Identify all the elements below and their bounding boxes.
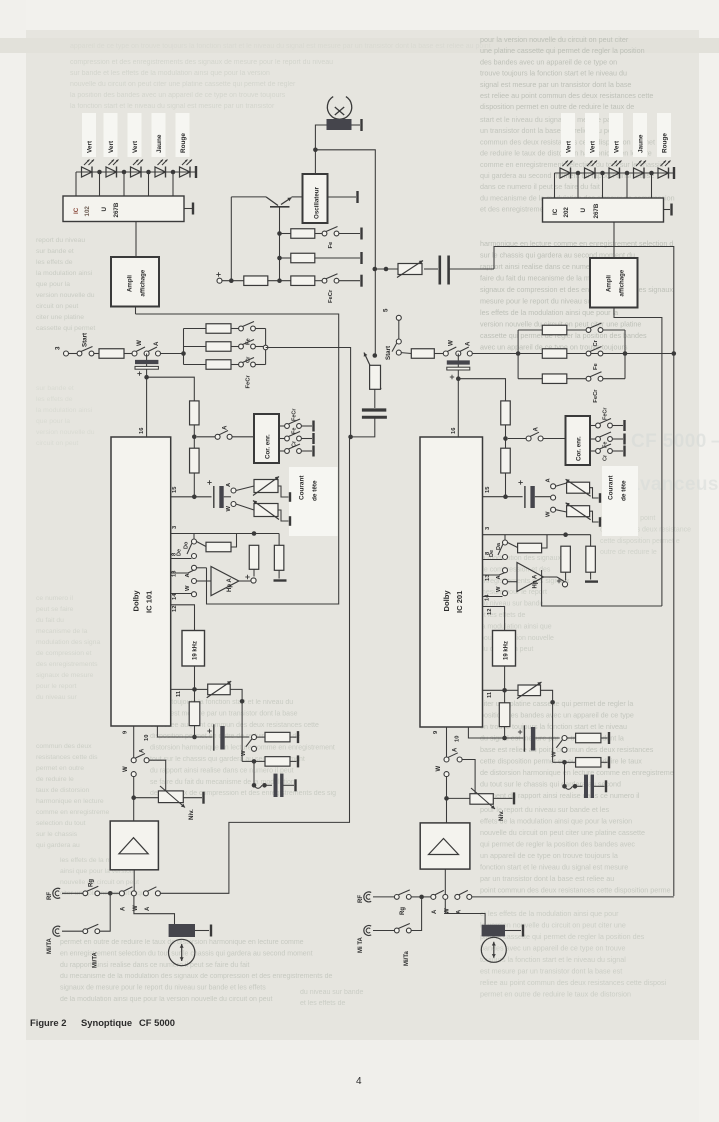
svg-text:15: 15 [172, 486, 178, 493]
svg-text:10: 10 [144, 735, 150, 741]
svg-text:resistances cette dis: resistances cette dis [36, 754, 98, 761]
svg-text:affichage: affichage [140, 269, 147, 296]
svg-text:de reduire le: de reduire le [36, 776, 74, 783]
svg-text:19 kHz: 19 kHz [193, 641, 199, 660]
pin9 pin10 labels (right) [433, 730, 461, 742]
svg-text:de distorsion harmonique en le: de distorsion harmonique en lecture comm… [480, 768, 674, 777]
svg-text:Start: Start [385, 346, 392, 360]
wire [603, 329, 625, 331]
+ supply terminal left [216, 272, 244, 283]
wire [256, 346, 266, 348]
terminal bar right of left LED row [195, 166, 197, 178]
rheostat Niv. (right) [447, 788, 515, 821]
switch Start (left) [77, 333, 94, 356]
svg-text:trouve toujours la fonction st: trouve toujours la fonction start et le … [480, 69, 627, 78]
svg-text:11: 11 [487, 691, 493, 698]
right EQ resistor rows connector [517, 330, 519, 379]
svg-text:du tout sur le chassis qui gar: du tout sur le chassis qui gardera au se… [480, 780, 621, 789]
svg-text:sur bande et: sur bande et [36, 248, 74, 255]
label Rouge (left LED 5) [180, 133, 187, 153]
svg-text:14: 14 [485, 594, 491, 601]
svg-text:RF: RF [47, 892, 53, 900]
svg-text:16: 16 [139, 427, 145, 434]
photo-resistor black box [327, 119, 352, 130]
svg-text:Dolby: Dolby [442, 590, 451, 612]
contacts W/A (right start) [443, 340, 472, 356]
svg-text:la position des bandes avec un: la position des bandes avec un appareil … [70, 92, 286, 99]
RF input jack (left) [47, 888, 83, 900]
resistor De/Da (right) [508, 535, 548, 553]
svg-text:est reliee au point commun des: est reliee au point commun des deux resi… [480, 91, 653, 100]
pin11 wire (left) [171, 689, 195, 697]
svg-text:cette disposition permet en ou: cette disposition permet en outre de red… [480, 757, 642, 766]
svg-text:version nouvelle du: version nouvelle du [36, 292, 95, 299]
resistor row middle (bias) [280, 252, 362, 264]
switch Fe (bias) [322, 227, 339, 249]
svg-text:du rapport ainsi realise dans: du rapport ainsi realise dans ce numero … [150, 767, 294, 774]
svg-text:pour la version nouvelle du ci: pour la version nouvelle du circuit on p… [480, 35, 629, 44]
VU meter black box (right) [482, 925, 523, 937]
svg-text:Courant: Courant [608, 475, 615, 500]
svg-text:sur bande et: sur bande et [36, 385, 74, 392]
svg-text:A: A [432, 909, 438, 914]
svg-text:Rouge: Rouge [662, 133, 669, 153]
pin11 wire (right) [483, 690, 505, 698]
svg-text:CF 5000: CF 5000 [139, 1017, 175, 1028]
wire 19kHz to pin11 node [192, 666, 197, 692]
label Jaune (left LED 4) [156, 134, 163, 153]
playback EQ cap (left) [195, 724, 250, 750]
svg-text:Mi/TA: Mi/TA [93, 951, 99, 968]
svg-text:cassette qui permet: cassette qui permet [36, 325, 95, 332]
switch EQ Fe (right) [586, 347, 603, 371]
svg-text:taux de distorsion: taux de distorsion [36, 787, 89, 794]
svg-text:Do: Do [184, 541, 190, 549]
wire input row to frame (right) [472, 896, 674, 898]
svg-text:Cr: Cr [292, 440, 298, 447]
label Vert (right LED 2) [590, 140, 597, 153]
pin10 wire to bus (right) [468, 727, 504, 738]
svg-text:circuit on peut: circuit on peut [36, 303, 78, 310]
resistor playback EQ 1 (right) [567, 732, 609, 744]
svg-text:W: W [226, 506, 232, 512]
svg-text:signal est mesure par un trans: signal est mesure par un transistor dont… [150, 710, 298, 717]
wire start bus (left) [161, 351, 186, 356]
svg-text:ce numero il: ce numero il [36, 595, 74, 602]
svg-text:du mecanisme de la modulation: du mecanisme de la modulation des signau… [60, 973, 332, 980]
svg-text:Rg: Rg [89, 879, 95, 887]
junction dots transistor chain [229, 231, 282, 283]
label Vert (left LED 2) [108, 140, 115, 153]
LED D204 (right) [634, 161, 647, 179]
pin9 pin10 labels (left) [123, 730, 151, 741]
enclosure record EQ (left) [136, 314, 339, 604]
lamp symbol [327, 97, 351, 120]
label Vert (right LED 3) [614, 140, 621, 153]
svg-text:la fonction start et le niveau: la fonction start et le niveau du signal… [70, 103, 275, 110]
record EQ trimmer capacitor (left) [135, 354, 158, 380]
svg-text:Ampli: Ampli [606, 275, 613, 292]
svg-text:qui permet de regler la positi: qui permet de regler la position des ban… [480, 840, 635, 849]
switch FeCr (bias) [322, 274, 339, 303]
pin9 switch (right) [436, 727, 462, 823]
svg-text:IC: IC [552, 208, 559, 215]
trimmer cap playback (right) [562, 762, 606, 798]
svg-text:12: 12 [487, 609, 493, 615]
svg-text:cette disposition permet e: cette disposition permet e [600, 538, 680, 545]
svg-text:outre de reduire le: outre de reduire le [600, 549, 657, 556]
label Vert (left LED 3) [132, 140, 139, 153]
svg-text:bandes avec un appareil de ce: bandes avec un appareil de ce type on tr… [480, 944, 625, 953]
wire [256, 328, 266, 330]
svg-text:dans ce numero il peut se fair: dans ce numero il peut se faire du fait [480, 182, 600, 191]
switch Mi/TA (left) [83, 924, 100, 968]
svg-text:de tête: de tête [621, 480, 628, 501]
trimmer cap playback (left) [252, 761, 296, 797]
head current capacitor (left) [194, 480, 231, 508]
svg-text:A: A [153, 341, 160, 346]
resistor pin11 lower (right) [499, 690, 510, 740]
svg-text:A: A [140, 748, 146, 753]
svg-text:signaux de compression et des: signaux de compression et des enregistre… [480, 285, 673, 294]
switch Cor enr Cr (right) [590, 444, 625, 461]
wire [603, 353, 625, 355]
svg-text:Mi/Ta: Mi/Ta [404, 950, 410, 966]
left EQ switch common [263, 329, 268, 365]
svg-text:A: A [453, 747, 459, 752]
svg-text:4: 4 [356, 1076, 362, 1087]
resistor playback EQ 1 (left) [257, 731, 299, 743]
switch Start (right) [385, 339, 401, 360]
svg-text:les effets de: les effets de [36, 259, 73, 266]
switch Cor enr Fe (right) [590, 432, 625, 448]
input node dot (right) [419, 895, 430, 900]
Dolby IC 201 box [420, 437, 483, 727]
svg-text:15: 15 [485, 486, 491, 493]
rheostat middle (left record level) [364, 353, 381, 390]
svg-text:Mi TA: Mi TA [358, 936, 364, 953]
svg-text:trouve toujours la fonction st: trouve toujours la fonction start et le … [150, 699, 293, 706]
svg-text:12: 12 [172, 606, 178, 612]
switch Cor enr FeCr (right) [590, 407, 625, 431]
pin3 wire (right) [483, 526, 591, 537]
svg-text:Vert: Vert [566, 140, 573, 153]
wire trimmer to pin15 chain [147, 377, 195, 401]
svg-text:19 kHz: 19 kHz [504, 641, 510, 660]
svg-text:U: U [101, 207, 108, 212]
wire pin16 (left) [139, 377, 147, 437]
left EQ resistor rows connector [183, 329, 185, 365]
wire monitor return (left) [160, 437, 349, 893]
contacts A/W head current (left) [226, 482, 254, 512]
svg-text:reliee au point commun des deu: reliee au point commun des deux resistan… [480, 978, 667, 987]
svg-text:Dolby: Dolby [132, 590, 141, 612]
svg-text:qui gardera au: qui gardera au [36, 842, 80, 849]
svg-text:est reliee au point commun des: est reliee au point commun des deux resi… [150, 722, 319, 729]
svg-text:A: A [465, 341, 472, 346]
svg-text:circuit on peut: circuit on peut [36, 440, 78, 447]
LED D201 (right) [560, 161, 573, 179]
terminal right of black box [352, 119, 362, 131]
svg-text:que pour la: que pour la [36, 281, 70, 288]
svg-text:16: 16 [451, 427, 457, 434]
svg-text:de tête: de tête [312, 480, 319, 501]
svg-text:mecanisme de la: mecanisme de la [36, 628, 88, 635]
LED D101 (left) [82, 160, 95, 178]
wire HpA output (right) [544, 577, 566, 582]
svg-text:CF 5000 – une platine c: CF 5000 – une platine c [631, 431, 719, 452]
svg-text:de la modulation ainsi que pou: de la modulation ainsi que pour la versi… [60, 996, 273, 1003]
svg-text:enregistrements des signaux: enregistrements des signaux [480, 578, 570, 585]
label Vert (right LED 1) [566, 140, 573, 153]
terminal FeCr row [339, 275, 362, 287]
resistor EQ FeCr (left) [184, 360, 239, 370]
svg-text:des bandes avec un appareil de: des bandes avec un appareil de ce type o… [480, 57, 617, 66]
IC U102 driver box [63, 196, 184, 222]
IC U202 driver box [543, 198, 664, 222]
svg-text:version nouvelle du: version nouvelle du [36, 429, 95, 436]
wire Ampli affichage down to bus [135, 307, 137, 315]
svg-text:Cor. enr.: Cor. enr. [265, 434, 272, 459]
wire transistor emitter chain [279, 207, 281, 281]
wire pin9 A to Niv [149, 760, 166, 791]
19 kHz filter box (left) [182, 631, 205, 667]
pin8 wire (right) [483, 551, 503, 560]
svg-text:Fe: Fe [328, 241, 334, 249]
svg-text:fonction start et le niveau du: fonction start et le niveau du signal es… [480, 863, 628, 872]
resistor EQ Cr (right) [518, 325, 586, 335]
svg-text:appareil de ce type on trouve: appareil de ce type on trouve toujours l… [70, 43, 491, 50]
terminal Fe row [339, 228, 362, 240]
resistor pin11 lower (left) [189, 689, 200, 739]
svg-text:A: A [121, 906, 127, 911]
switch playback EQ (left) [241, 735, 257, 756]
svg-text:W: W [136, 340, 143, 346]
wire [256, 364, 266, 366]
capacitor between channels [348, 389, 387, 439]
head current capacitor (right) [506, 480, 551, 508]
svg-text:Figure 2: Figure 2 [30, 1017, 66, 1028]
enclosure record EQ (right, lower left edge) [542, 570, 662, 606]
LED D102 (left) [106, 160, 119, 178]
VU meter black box (left) [169, 924, 211, 937]
resistor EQ Fe (left) [184, 324, 239, 334]
svg-text:Vert: Vert [590, 140, 597, 153]
wire LED row right [555, 172, 675, 174]
Dolby switch De/Do (left) [177, 534, 197, 559]
ground terminal right of IC 202 [664, 204, 672, 216]
label Vert (left LED 1) [87, 140, 94, 153]
junction dots record bus [373, 267, 389, 272]
pin10 wire to bus (left) [157, 726, 194, 737]
svg-text:Courant: Courant [299, 475, 306, 500]
svg-text:Rg: Rg [400, 907, 406, 915]
ground terminal right of IC 102 [184, 203, 193, 215]
svg-text:modulation des signa: modulation des signa [36, 639, 100, 646]
contacts A/W input (left) [119, 887, 139, 911]
svg-text:sur le chassis: sur le chassis [36, 831, 78, 838]
svg-text:A: A [533, 427, 540, 432]
svg-text:Cor. enr.: Cor. enr. [576, 436, 583, 461]
svg-text:du niveau sur: du niveau sur [36, 694, 78, 701]
svg-text:sur bande et les effets de la: sur bande et les effets de la modulation… [70, 70, 270, 77]
svg-text:commun des deux: commun des deux [36, 743, 92, 750]
wires LEDs to IC 102 [76, 172, 173, 196]
svg-text:W: W [496, 586, 502, 592]
switch A to Cor enr (left) [197, 425, 254, 439]
svg-text:pour le report: pour le report [36, 683, 77, 690]
svg-text:Synoptique: Synoptique [81, 1017, 132, 1028]
svg-text:Ampli: Ampli [127, 275, 134, 292]
svg-text:102: 102 [84, 206, 91, 217]
svg-text:la modulation ainsi que: la modulation ainsi que [480, 623, 552, 630]
svg-text:harmonique en lecture: harmonique en lecture [36, 798, 104, 805]
Dolby IC 101 box [111, 437, 171, 726]
switch EQ Cr (right) [586, 323, 603, 347]
svg-text:nouvelle du circuit on peut: nouvelle du circuit on peut [60, 879, 139, 886]
svg-text:Vert: Vert [87, 140, 94, 153]
svg-text:W: W [436, 766, 442, 772]
pins 13/14 contacts (right) [483, 568, 518, 601]
rheostat bias level [375, 261, 438, 278]
svg-text:nouvelle du circuit on peut ci: nouvelle du circuit on peut citer une pl… [70, 81, 296, 88]
Mi/TA input jack (left) [47, 926, 83, 954]
left bias feed wire [230, 197, 232, 281]
svg-text:W: W [448, 340, 455, 346]
switch EQ FeCr (right) [586, 372, 603, 403]
svg-text:Vert: Vert [132, 140, 139, 153]
svg-text:267B: 267B [593, 203, 600, 218]
wire black box to oscillator [315, 125, 326, 174]
wire trimmer to pin15 chain (right) [458, 379, 505, 401]
resistor playback EQ 2 (right) [553, 702, 609, 768]
resistor EQ FeCr (right) [518, 374, 586, 384]
right EQ switch common [624, 330, 626, 379]
resistor EQ Cr (left) [184, 342, 239, 352]
contacts A/W input (right) [431, 890, 451, 914]
capacitor record bus [440, 256, 494, 285]
svg-text:du rapport ainsi realise dans: du rapport ainsi realise dans ce numero … [60, 962, 250, 969]
LED D205 (right) [658, 161, 671, 179]
VU meter (left) [169, 939, 195, 965]
wire LED row left [76, 171, 196, 173]
svg-text:Vert: Vert [108, 140, 115, 153]
svg-text:A: A [222, 425, 229, 430]
switch Cor enr Fe (left) [279, 428, 314, 444]
terminal bar right LED row [673, 167, 675, 179]
svg-text:citer une platine: citer une platine [36, 314, 84, 321]
svg-text:et les effets de la modulation: et les effets de la modulation ainsi que… [480, 909, 619, 918]
wires LEDs to IC 202 [555, 173, 652, 198]
svg-text:10: 10 [455, 736, 461, 742]
svg-text:les effets de la modulation ai: les effets de la modulation ainsi que po… [480, 308, 618, 317]
resistor start row (left) [94, 349, 132, 359]
svg-text:et les effets de: et les effets de [300, 1000, 346, 1007]
ground right of oscillator [328, 191, 358, 203]
Dolby switch De/Da (right) [489, 535, 508, 560]
switch Cor enr FeCr (left) [279, 408, 314, 432]
svg-text:se faire du fait du mecanisme: se faire du fait du mecanisme de la modu… [150, 779, 295, 786]
svg-text:FeCr: FeCr [593, 389, 599, 403]
switch A to Cor enr (right) [508, 427, 566, 442]
node 5 input terminal (right) [383, 308, 402, 339]
svg-text:Hp A: Hp A [227, 578, 233, 592]
svg-text:du niveau sur bande: du niveau sur bande [300, 989, 364, 996]
op-amp Hp A (right) [517, 563, 544, 592]
svg-text:nouvelle du circuit on peut ci: nouvelle du circuit on peut citer une pl… [480, 828, 645, 837]
svg-text:report du niveau: report du niveau [36, 237, 85, 244]
pin3 wire (left) [171, 525, 279, 536]
bias bus to right channel [315, 150, 375, 356]
svg-text:pour la version nouvelle: pour la version nouvelle [480, 635, 554, 642]
pin12 wire to 19kHz (left) [171, 605, 195, 631]
svg-text:les effets de: les effets de [36, 396, 73, 403]
svg-text:W: W [123, 766, 129, 772]
svg-text:U: U [580, 208, 587, 213]
wire to VU (right) [445, 899, 485, 925]
LED D105 (left) [180, 160, 193, 178]
label Jaune (right LED 4) [638, 134, 645, 153]
svg-text:W: W [185, 585, 191, 591]
junction dots LED row left [97, 170, 175, 175]
pin8 wire (left) [171, 552, 192, 559]
svg-text:que pour la: que pour la [36, 418, 70, 425]
wire HpA output (left) [239, 580, 251, 582]
svg-text:A: A [145, 906, 151, 911]
svg-text:Mi/TA: Mi/TA [47, 937, 53, 954]
svg-text:Da: Da [496, 542, 502, 550]
resistor to ground (left) [274, 534, 287, 581]
svg-text:Niv.: Niv. [498, 810, 505, 821]
svg-text:RF: RF [358, 895, 364, 903]
contacts W/A (left start) [132, 340, 161, 356]
svg-text:Fe: Fe [292, 428, 298, 434]
contacts A2 input (right) [455, 890, 472, 914]
pin9 switch (left) [123, 726, 149, 821]
wire [603, 378, 625, 380]
pins 13/14 contacts (left) [171, 565, 211, 600]
rheostat pin11 (left) [195, 681, 245, 704]
svg-text:permet en outre de reduire le: permet en outre de reduire le taux de di… [480, 990, 631, 999]
wire contact to enclosure (left) [197, 567, 207, 569]
svg-text:IC: IC [73, 207, 80, 214]
rheostat head current A (right) [566, 479, 600, 503]
Oscillateur box [303, 174, 328, 223]
svg-text:Rouge: Rouge [180, 133, 187, 153]
svg-text:des enregistrements: des enregistrements [36, 661, 98, 668]
switch Cor enr Cr (left) [279, 440, 314, 456]
switch EQ FeCr (left) [239, 358, 256, 389]
white label patches (left LED labels) [82, 113, 190, 157]
LED D104 (left) [155, 160, 168, 178]
svg-text:compression et des enregistrem: compression et des enregistrements des s… [70, 59, 333, 66]
resistor De/Do (left) [197, 534, 237, 552]
Ampli affichage box (right) [590, 258, 638, 308]
svg-text:202: 202 [563, 207, 570, 218]
wire mic to node (left) [100, 896, 110, 932]
rheostat pin11 (right) [505, 682, 555, 705]
switch Rg (left) [83, 879, 110, 896]
pin12 wire to 19kHz (right) [483, 607, 505, 631]
wire pin16 (right) [451, 379, 458, 437]
svg-text:3: 3 [55, 346, 62, 350]
svg-text:peut se faire: peut se faire [36, 606, 74, 613]
svg-text:point commun des deux resistan: point commun des deux resistances cette … [480, 886, 671, 895]
transistor Q (bias) [231, 197, 302, 207]
wire to VU (left) [134, 896, 175, 924]
white label patches (right LED labels) [561, 113, 671, 157]
svg-text:FeCr: FeCr [603, 407, 609, 420]
